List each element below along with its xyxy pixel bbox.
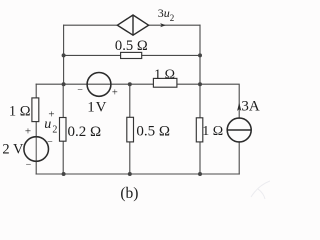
svg-text:0.2 Ω: 0.2 Ω	[68, 124, 102, 140]
svg-text:−: −	[26, 160, 32, 171]
svg-text:2: 2	[52, 125, 57, 136]
svg-text:(b): (b)	[120, 185, 138, 202]
svg-text:+: +	[25, 125, 31, 137]
svg-text:0.5 Ω: 0.5 Ω	[115, 38, 148, 54]
svg-text:3u2: 3u2	[158, 6, 175, 23]
svg-text:3A: 3A	[241, 99, 260, 115]
svg-text:1V: 1V	[87, 100, 107, 116]
svg-text:1 Ω: 1 Ω	[9, 103, 31, 119]
svg-text:1 Ω: 1 Ω	[154, 67, 175, 82]
svg-text:u: u	[44, 117, 51, 132]
svg-text:+: +	[112, 88, 118, 99]
svg-text:1 Ω: 1 Ω	[202, 124, 223, 139]
svg-text:0.5 Ω: 0.5 Ω	[136, 124, 170, 140]
svg-text:−: −	[77, 85, 83, 96]
svg-text:−: −	[47, 137, 53, 148]
svg-text:2 V: 2 V	[2, 142, 24, 158]
